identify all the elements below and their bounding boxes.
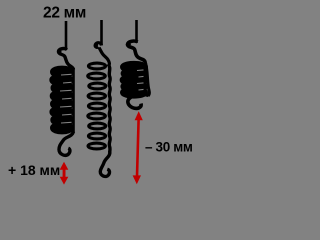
spring S2 hook nub xyxy=(94,43,98,47)
spring S1 coil body fill xyxy=(54,70,70,130)
svg-text:+ 18 мм: + 18 мм xyxy=(8,162,60,178)
spring S3 coil ribs xyxy=(137,70,144,90)
spring S3 coil body xyxy=(122,64,145,96)
spring S2 bottom tail hook xyxy=(100,151,110,176)
spring S1 top hook xyxy=(58,49,73,70)
spring S1 top wire xyxy=(65,21,68,50)
spring S3 coil body fill xyxy=(126,64,143,95)
svg-text:22 мм: 22 мм xyxy=(43,5,86,22)
spring S1 hook nub xyxy=(58,50,62,54)
spring S2 top wire xyxy=(100,20,103,45)
spring S1 coil ribs xyxy=(60,74,72,123)
red arrow A1 (left, double-headed) xyxy=(60,162,69,185)
spring S3 top wire xyxy=(135,20,138,43)
spring S2 back wire xyxy=(108,64,110,153)
red arrow A2 (right, double-headed) xyxy=(133,111,143,184)
spring S3 bottom hook xyxy=(128,94,149,108)
spring S3 hook nub xyxy=(127,42,131,46)
spring S1 coil body xyxy=(52,69,71,132)
spring S3 top hook xyxy=(127,41,145,62)
spring S2 stretched coil xyxy=(88,63,106,149)
svg-text:– 30 мм: – 30 мм xyxy=(145,140,193,155)
spring S3 right wire xyxy=(145,61,149,96)
spring S2 top hook xyxy=(95,43,109,65)
spring S1 bottom hook xyxy=(59,132,74,156)
